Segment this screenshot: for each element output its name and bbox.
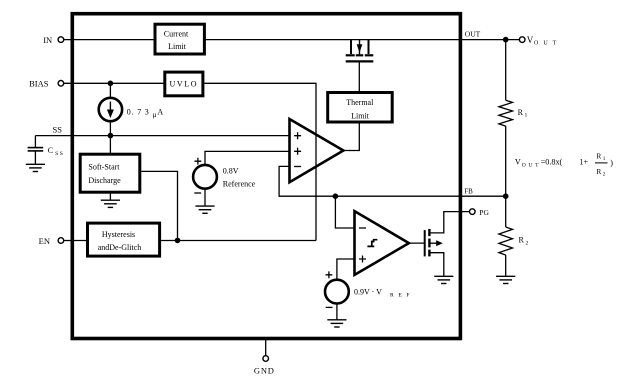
resistor R1 bbox=[499, 100, 513, 126]
wire GND pin stub bbox=[265, 340, 267, 356]
svg-text:Thermal: Thermal bbox=[346, 98, 374, 107]
svg-text:Current: Current bbox=[164, 30, 189, 39]
wire Hysteresis output (enable line) bbox=[161, 240, 316, 242]
box Soft-Start Discharge bbox=[80, 154, 140, 192]
chip boundary box bbox=[72, 14, 460, 339]
junction dot VOUT node bbox=[503, 37, 509, 43]
wire IN rail (IN pin to VOUT pin, y=39.6) bbox=[64, 39, 520, 41]
svg-text:SS: SS bbox=[53, 125, 63, 135]
junction dot SS line bbox=[108, 133, 114, 139]
svg-text:): ) bbox=[610, 159, 613, 168]
wire comparator output to NMOS gate bbox=[409, 242, 425, 244]
wire comparator + input to 0.9V source bbox=[337, 259, 355, 280]
ground below 0.8V reference bbox=[195, 206, 214, 213]
wire SS line bbox=[35, 135, 289, 137]
svg-text:BIAS: BIAS bbox=[29, 79, 49, 89]
svg-text:1+: 1+ bbox=[579, 158, 588, 167]
wire EN pin to Hysteresis box bbox=[64, 240, 87, 242]
junction dot FB divider node bbox=[503, 193, 509, 199]
box UVLO bbox=[165, 72, 203, 96]
wire BIAS line bbox=[64, 82, 164, 84]
svg-text:V: V bbox=[527, 35, 534, 45]
wire 0.8V reference to error amp + input bbox=[205, 151, 290, 165]
wire SS line down to Soft-Start Discharge box bbox=[109, 136, 111, 154]
capacitor CSS bbox=[28, 136, 44, 164]
ground below NMOS source bbox=[434, 276, 453, 283]
wire error amp - input / FB line to R1-R2 node bbox=[279, 166, 506, 196]
pin PG bbox=[470, 209, 476, 215]
wire Soft-Start Discharge to ground bbox=[109, 192, 111, 200]
svg-text:UVLO: UVLO bbox=[169, 79, 198, 88]
svg-text:Reference: Reference bbox=[223, 179, 256, 188]
junction dot FB node (error amp side) bbox=[333, 193, 339, 199]
svg-text:Limit: Limit bbox=[351, 111, 370, 120]
voltage source 0.9V x VREF bbox=[325, 280, 349, 304]
wire error amp output up through thermal limit to FET gate bbox=[343, 123, 359, 150]
svg-text:andDe-Glitch: andDe-Glitch bbox=[98, 243, 142, 252]
svg-text:GND: GND bbox=[254, 366, 275, 376]
pin BIAS bbox=[58, 81, 64, 87]
pin VOUT bbox=[519, 37, 525, 43]
transistor Q2 PG open-drain NMOS bbox=[425, 229, 430, 256]
wire 0.9V source to ground bbox=[336, 303, 338, 319]
box Current Limit bbox=[155, 24, 204, 54]
ground below CSS bbox=[26, 164, 45, 171]
pin GND bbox=[263, 356, 269, 362]
wire VOUT node down to R1 bbox=[505, 40, 507, 101]
wire current source to SS line bbox=[109, 121, 111, 136]
pin EN bbox=[58, 238, 64, 244]
junction dot enable line bbox=[175, 238, 181, 244]
junction dot BIAS/current-source bbox=[108, 81, 114, 87]
svg-text:=0.8x(: =0.8x( bbox=[541, 158, 563, 167]
svg-text:IN: IN bbox=[43, 35, 52, 45]
wire Soft-Start Discharge output right then down to enable line bbox=[141, 171, 177, 240]
wire R2 to ground bbox=[505, 255, 507, 276]
box Hysteresis and De-Glitch bbox=[88, 223, 160, 256]
wire FB node to R2 bbox=[505, 196, 507, 227]
wire NMOS drain up to PG line bbox=[429, 212, 469, 233]
svg-text:EN: EN bbox=[39, 236, 50, 246]
transistor Q1 pass PMOS bbox=[346, 40, 374, 62]
ground below 0.9V source bbox=[327, 320, 346, 327]
svg-text:Discharge: Discharge bbox=[88, 176, 121, 185]
wire NMOS source to ground bbox=[429, 253, 443, 276]
NMOS bulk arrow bbox=[429, 242, 437, 244]
svg-text:OUT: OUT bbox=[534, 41, 561, 47]
wire R1 to FB node bbox=[505, 126, 507, 196]
op-amp error amplifier bbox=[290, 119, 344, 182]
svg-text:Soft-Start: Soft-Start bbox=[88, 162, 120, 171]
wire FET gate down to thermal limit top bbox=[358, 61, 360, 92]
wire UVLO output right then down to enable line bbox=[204, 83, 316, 240]
svg-text:OUT: OUT bbox=[522, 162, 541, 168]
wire FB node down to comparator - input bbox=[335, 196, 354, 228]
current source I1 0.73uA bbox=[99, 98, 122, 121]
svg-text:Hysteresis: Hysteresis bbox=[102, 230, 135, 239]
svg-text:REF: REF bbox=[390, 292, 414, 298]
resistor R2 bbox=[499, 227, 513, 255]
svg-text:PG: PG bbox=[479, 208, 489, 217]
svg-text:FB: FB bbox=[464, 187, 473, 195]
svg-text:0.9V · V: 0.9V · V bbox=[354, 288, 382, 297]
ground below R2 bbox=[496, 276, 515, 283]
box Thermal Limit bbox=[328, 93, 393, 123]
svg-text:Limit: Limit bbox=[168, 42, 187, 51]
wire BIAS to current source bbox=[109, 83, 111, 98]
pin IN bbox=[58, 37, 64, 43]
svg-text:OUT: OUT bbox=[465, 30, 481, 39]
comparator PG bbox=[355, 211, 409, 275]
voltage source 0.8V reference bbox=[193, 165, 217, 189]
ground below Soft-Start Discharge bbox=[101, 200, 120, 207]
svg-text:0.8V: 0.8V bbox=[223, 166, 239, 175]
svg-text:V: V bbox=[515, 158, 521, 167]
